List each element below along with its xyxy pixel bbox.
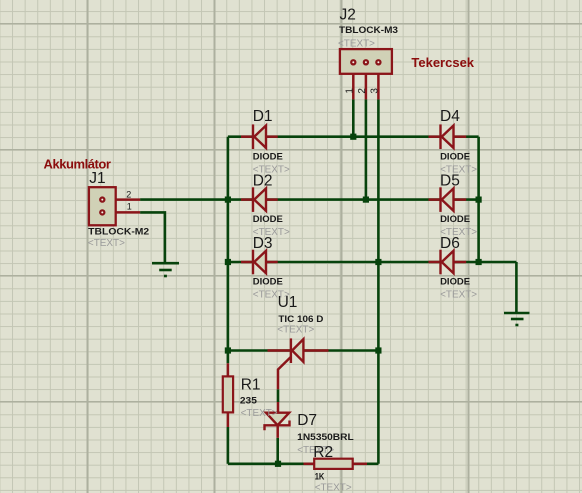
svg-text:<TEXT>: <TEXT>	[88, 238, 125, 249]
wire bottom rail	[228, 462, 379, 465]
wire J2 pin1 drop	[352, 99, 355, 136]
svg-text:J1: J1	[89, 170, 105, 187]
svg-text:DIODE: DIODE	[440, 152, 471, 163]
junction J1.2 / D2 net left	[225, 197, 231, 203]
svg-text:1: 1	[127, 202, 132, 212]
diode D2	[253, 187, 266, 212]
svg-text:TBLOCK-M2: TBLOCK-M2	[88, 227, 149, 238]
svg-text:3: 3	[370, 88, 381, 94]
junction U1 row / J2.3 vertical	[375, 347, 381, 353]
wire gate green piece	[277, 389, 280, 402]
svg-text:<TEXT>: <TEXT>	[241, 408, 278, 419]
diode D6	[441, 250, 454, 275]
D7 pin stubs	[277, 402, 280, 414]
connector J1 TBLOCK-M2	[89, 187, 116, 225]
D2 stubs	[241, 198, 252, 201]
diode D5	[441, 187, 454, 212]
svg-text:DIODE: DIODE	[253, 214, 284, 225]
J2 pin stubs	[352, 64, 355, 99]
svg-text:TBLOCK-M3: TBLOCK-M3	[339, 25, 398, 36]
junction J2.2 / D2-D5 net	[363, 197, 369, 203]
junction J2.1 / D1-D4 net	[350, 134, 356, 140]
resistor R2	[314, 459, 353, 469]
R1 pin stubs	[227, 363, 230, 376]
svg-text:DIODE: DIODE	[440, 214, 471, 225]
connector J2 TBLOCK-M3	[340, 49, 392, 74]
zener diode D7	[265, 413, 290, 431]
wire J2 pin3 drop long vertical	[377, 99, 380, 463]
svg-text:2: 2	[357, 88, 368, 94]
R2 pin stubs	[304, 463, 315, 466]
ground (right, D6 net)	[504, 313, 530, 325]
junction D6 right / ground branch	[476, 259, 482, 265]
diode D1	[253, 124, 266, 149]
svg-text:D7: D7	[297, 412, 317, 429]
U1 anode/cathode stubs	[268, 349, 290, 352]
wire J1 pin1 to ground	[140, 212, 165, 262]
svg-text:R2: R2	[313, 444, 333, 461]
wire D7 bottom green	[276, 438, 279, 464]
svg-text:D4: D4	[440, 108, 460, 125]
wire J2 pin2 drop	[365, 99, 368, 199]
svg-text:1K: 1K	[315, 472, 325, 483]
junction left bus / U1 anode row	[225, 347, 231, 353]
svg-text:DIODE: DIODE	[253, 152, 284, 163]
J1 pin stubs	[102, 198, 140, 201]
svg-text:<TEXT>: <TEXT>	[440, 290, 477, 301]
svg-text:2: 2	[126, 190, 131, 200]
resistor R1	[223, 376, 233, 412]
svg-text:Akkumlátor: Akkumlátor	[44, 156, 111, 171]
svg-text:D5: D5	[440, 172, 460, 189]
svg-text:DIODE: DIODE	[253, 277, 284, 288]
wire row A (D1-D4 net)	[228, 135, 479, 138]
D3 stubs	[241, 261, 252, 264]
D5 stubs	[429, 198, 440, 201]
wire right ground drop	[515, 262, 518, 312]
junction left bus / D3 net	[225, 259, 231, 265]
svg-text:235: 235	[240, 395, 258, 406]
svg-text:1: 1	[345, 88, 356, 94]
svg-text:D2: D2	[253, 172, 273, 189]
svg-text:J2: J2	[340, 6, 356, 23]
wire R1 bottom to rail	[227, 427, 230, 464]
svg-text:<TEXT>: <TEXT>	[315, 483, 352, 493]
svg-text:<TEXT>: <TEXT>	[277, 325, 314, 336]
svg-text:1N5350BRL: 1N5350BRL	[297, 432, 354, 443]
ground (left, J1 pin1)	[152, 263, 179, 276]
svg-text:<TEXT>: <TEXT>	[338, 38, 375, 49]
svg-text:DIODE: DIODE	[440, 277, 471, 288]
svg-text:R1: R1	[241, 377, 261, 394]
svg-text:D1: D1	[253, 108, 273, 125]
D6 stubs	[429, 261, 440, 264]
svg-text:D3: D3	[253, 235, 273, 252]
wire right vertical D4-D6	[477, 137, 480, 262]
svg-text:Tekercsek: Tekercsek	[411, 55, 474, 70]
svg-text:TIC 106 D: TIC 106 D	[278, 314, 323, 325]
wire row B (J1.2 to D2-D5 net)	[140, 198, 479, 201]
diode D4	[441, 124, 454, 149]
junction D7 cathode / bottom rail	[275, 461, 281, 467]
wire SCR row	[228, 349, 379, 352]
svg-text:U1: U1	[278, 294, 298, 311]
U1 gate red polyline	[278, 357, 291, 389]
wire row C (D3-D6 net to right ground)	[228, 261, 517, 264]
D4 stubs	[429, 135, 440, 138]
diode D3	[253, 250, 266, 275]
thyristor U1 TIC106D	[291, 338, 304, 363]
junction D5 right / right bus	[476, 197, 482, 203]
D1 stubs	[241, 135, 252, 138]
junction J2.3 / D3-D6 net	[375, 259, 381, 265]
wire left vertical bus	[227, 137, 230, 364]
svg-text:D6: D6	[440, 235, 460, 252]
